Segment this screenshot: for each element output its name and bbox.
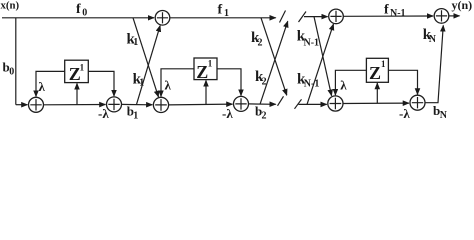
svg-text:1: 1 — [133, 111, 138, 122]
svg-text:-λ: -λ — [222, 106, 233, 121]
svg-text:2: 2 — [262, 110, 267, 121]
svg-text:f: f — [76, 2, 81, 17]
svg-text:N: N — [440, 110, 448, 121]
svg-text:1: 1 — [80, 62, 85, 72]
svg-text:-λ: -λ — [98, 106, 109, 121]
svg-text:0: 0 — [9, 67, 14, 78]
svg-text:x(n): x(n) — [1, 0, 20, 12]
svg-text:1: 1 — [224, 8, 229, 19]
svg-text:Z: Z — [196, 62, 208, 82]
svg-text:1: 1 — [208, 59, 213, 69]
svg-text:λ: λ — [165, 77, 172, 92]
svg-text:f: f — [218, 2, 223, 17]
svg-text:2: 2 — [258, 37, 263, 48]
svg-text:Z: Z — [369, 63, 381, 83]
svg-text:1: 1 — [381, 59, 386, 69]
svg-text:N: N — [429, 34, 437, 45]
svg-text:y(n): y(n) — [452, 0, 473, 12]
svg-text:1: 1 — [133, 37, 138, 48]
svg-text:N-1: N-1 — [304, 37, 320, 48]
svg-text:λ: λ — [39, 79, 46, 94]
svg-text:N-1: N-1 — [390, 8, 406, 19]
svg-text:f: f — [384, 2, 389, 17]
svg-text:-λ: -λ — [399, 106, 410, 121]
svg-text:2: 2 — [262, 76, 267, 87]
svg-text:λ: λ — [340, 77, 347, 92]
svg-text:0: 0 — [82, 8, 87, 19]
svg-text:N-1: N-1 — [304, 78, 320, 89]
svg-text:1: 1 — [139, 77, 144, 88]
